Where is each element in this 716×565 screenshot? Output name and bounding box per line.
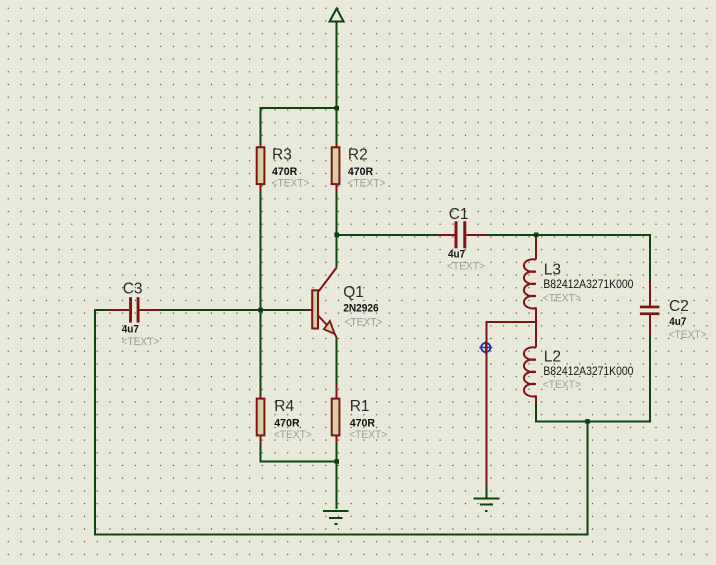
svg-text:R3: R3 xyxy=(272,147,292,164)
svg-text:<TEXT>: <TEXT> xyxy=(344,317,382,329)
svg-text:4u7: 4u7 xyxy=(448,249,465,261)
svg-text:L2: L2 xyxy=(544,349,561,366)
svg-text:<TEXT>: <TEXT> xyxy=(543,379,581,391)
svg-text:470R: 470R xyxy=(350,417,375,429)
svg-text:Q1: Q1 xyxy=(343,284,364,301)
svg-text:C2: C2 xyxy=(669,298,689,315)
svg-text:470R: 470R xyxy=(348,166,373,178)
svg-text:R2: R2 xyxy=(348,147,368,164)
svg-text:B82412A3271K000: B82412A3271K000 xyxy=(543,279,633,291)
svg-text:R1: R1 xyxy=(350,398,370,415)
svg-text:R4: R4 xyxy=(274,398,294,415)
svg-text:4u7: 4u7 xyxy=(669,316,686,328)
svg-text:<TEXT>: <TEXT> xyxy=(272,178,310,190)
svg-text:<TEXT>: <TEXT> xyxy=(349,429,387,441)
svg-text:<TEXT>: <TEXT> xyxy=(669,329,707,341)
svg-text:C1: C1 xyxy=(449,206,469,223)
svg-text:<TEXT>: <TEXT> xyxy=(274,429,312,441)
svg-text:C3: C3 xyxy=(123,281,143,298)
svg-text:470R: 470R xyxy=(272,166,297,178)
svg-text:470R: 470R xyxy=(274,417,299,429)
svg-text:<TEXT>: <TEXT> xyxy=(121,336,159,348)
svg-text:<TEXT>: <TEXT> xyxy=(543,292,581,304)
svg-text:<TEXT>: <TEXT> xyxy=(447,261,485,273)
svg-text:4u7: 4u7 xyxy=(122,324,139,336)
svg-text:L3: L3 xyxy=(544,262,561,279)
svg-text:<TEXT>: <TEXT> xyxy=(347,178,385,190)
svg-text:B82412A3271K000: B82412A3271K000 xyxy=(543,366,633,378)
svg-text:2N2926: 2N2926 xyxy=(343,303,379,315)
